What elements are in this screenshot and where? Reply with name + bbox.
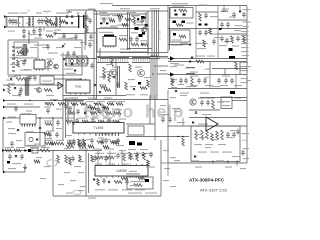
label z2 (8, 168, 16, 169)
label pfc t (99, 12, 107, 13)
wire x168 y90-126 (167, 90, 169, 126)
label C38 (198, 98, 206, 99)
wire y163 join (161, 162, 168, 164)
box PC817 opto (25, 133, 45, 147)
capacitor C3 (40, 18, 44, 24)
label cap row b (205, 85, 213, 86)
diode bridge BD1 b (66, 22, 69, 24)
capacitor C6 (141, 16, 145, 22)
diode bridge BD1 d (71, 22, 74, 24)
wire tick d (236, 163, 238, 166)
label emi h (30, 34, 37, 35)
capacitor C32 (8, 154, 12, 160)
component blob (183, 14, 186, 16)
capacitor C50 (200, 100, 204, 106)
resistor R25 (231, 36, 234, 43)
label d30 (202, 114, 211, 115)
svg-text:LM339: LM339 (116, 169, 126, 173)
wire center vertical 2 (154, 95, 156, 140)
resistor R39 (129, 152, 132, 160)
node y136 b (182, 136, 184, 138)
component blob (219, 28, 222, 30)
label bl a (36, 157, 42, 158)
diode D15 (191, 56, 193, 59)
diode D21 (66, 84, 68, 87)
capacitor C67 (46, 65, 50, 71)
label D17 (174, 65, 184, 66)
label pfc x (110, 26, 117, 27)
wire y174 (126, 173, 140, 175)
wire to bridge bottom (64, 26, 78, 28)
wire x88 (88, 153, 90, 193)
wire y150 under TL494 (63, 150, 102, 152)
diode D8 (113, 76, 116, 78)
diode D16 (189, 60, 191, 63)
resistor R7c (117, 15, 123, 18)
label 3v3 n (213, 139, 219, 140)
label hb e (144, 77, 151, 78)
label row1 (100, 18, 112, 19)
resistor R47 (221, 130, 224, 140)
opto IC2 (80, 58, 88, 64)
component blob (145, 24, 148, 27)
resistor R66 (138, 177, 145, 180)
resistor R71 (66, 145, 74, 148)
resistor R19 (106, 156, 114, 159)
wire y79 (54, 78, 82, 80)
diode D19 (24, 59, 26, 62)
node y100 a (29, 100, 30, 101)
label t6 (115, 109, 122, 110)
diode D28 (94, 84, 97, 86)
label R11 (137, 24, 145, 25)
label h10 (241, 78, 249, 79)
capacitor C70 (22, 28, 26, 34)
label +12 row a (190, 72, 198, 73)
label PS223 row2 (130, 185, 143, 186)
resistor R54 (14, 149, 21, 152)
label h7 (241, 62, 249, 63)
label rail b (216, 160, 224, 161)
label IC3 (66, 57, 74, 58)
wire +5VSB out (232, 100, 247, 102)
resistor R6 (86, 25, 89, 33)
label L3 (56, 13, 64, 14)
ground (53, 32, 57, 36)
svg-text:+3.3V: +3.3V (241, 140, 247, 142)
capacitor C94 (72, 139, 76, 145)
label rail d (225, 167, 232, 168)
label R69 (8, 133, 16, 134)
component blob (230, 91, 235, 94)
label sb in a (10, 57, 18, 58)
resistor R15 (65, 155, 68, 163)
label pwm h (78, 118, 87, 119)
resistor R7 (125, 18, 132, 21)
wire bottom of PFC box (97, 56, 168, 58)
resistor R10 (133, 16, 136, 24)
label m1 (106, 64, 113, 65)
terminal GND (3, 171, 6, 174)
label sb box2 (46, 59, 54, 60)
label t10 (119, 119, 126, 120)
label mid b (210, 34, 218, 35)
label wm a (160, 105, 166, 106)
capacitor C9 (85, 15, 89, 21)
label t4 (84, 111, 91, 112)
label 3v3 k (230, 130, 236, 131)
label in sbbox b (56, 47, 63, 48)
wire x210 to y88 (209, 75, 211, 89)
node sb (28, 33, 29, 34)
diode D14 (189, 43, 191, 46)
transistor Q2b (142, 28, 147, 33)
wire y74 to right (157, 73, 168, 75)
wire top rail 2 (94, 13, 147, 15)
wire below PFC box (100, 58, 160, 60)
label bb c (70, 180, 76, 181)
label 3v3 d (198, 152, 207, 153)
label top row PFC (100, 3, 113, 4)
wire x236 to y88 (235, 75, 237, 89)
resistor R78 (88, 145, 94, 148)
resistor R35 (147, 80, 150, 87)
resistor R24 (108, 74, 111, 82)
wire x100 drop (99, 48, 101, 58)
label under T1 (150, 53, 159, 54)
label in box (120, 49, 130, 50)
diode D23a (17, 129, 20, 131)
capacitor C8 (135, 36, 139, 42)
capacitor C78 (46, 44, 50, 50)
capacitor C7 (129, 36, 133, 42)
label sb in b (10, 64, 18, 65)
label u494 c (66, 135, 72, 136)
box SE110N (40, 76, 54, 84)
wire AC bottom (6, 26, 64, 28)
capacitor C20 (203, 78, 207, 84)
wire vertical bus x86 (85, 10, 87, 45)
label under LM339 b (108, 189, 118, 190)
resistor R36 (83, 139, 86, 146)
wire emi left vert 2 (5, 17, 7, 28)
label ka4 (44, 121, 52, 122)
resistor R72 (78, 145, 86, 148)
resistor RP2 (90, 107, 96, 110)
diode D19b rail start (170, 72, 175, 77)
label FR302 (196, 43, 208, 44)
capacitor C28 (19, 87, 23, 93)
label rt f (232, 46, 239, 47)
box 7805 reg (221, 97, 232, 109)
resistor R80 (147, 160, 150, 166)
wire x74 drop (73, 100, 75, 125)
label lm g (114, 156, 120, 157)
capacitor C90 (104, 156, 108, 162)
label dense a (68, 121, 75, 122)
capacitor C69 (102, 17, 106, 23)
wire y118 a (5, 117, 20, 119)
capacitor C57 (38, 27, 42, 33)
label in sbbox c (74, 47, 81, 48)
resistor R31 (66, 120, 73, 123)
resistor R40 (143, 152, 146, 160)
resistor R85 (69, 158, 72, 165)
resistor R75 (182, 138, 185, 146)
resistor R21 (136, 153, 139, 161)
resistor R8 (119, 38, 127, 41)
input terminal AC line (4, 15, 7, 18)
label u494 g (98, 138, 104, 139)
diode D4 (142, 154, 145, 156)
label bc a (128, 149, 136, 150)
label row c (30, 147, 39, 148)
diode D5 (137, 18, 140, 20)
wire rail y88 (168, 88, 247, 90)
capacitor C52 (226, 132, 230, 138)
node p1 (67, 103, 68, 104)
label lm e (74, 166, 81, 167)
label C13 (140, 40, 148, 41)
capacitor C75 (32, 28, 36, 34)
capacitor C53 (232, 132, 236, 138)
label cap row a (190, 85, 198, 86)
component blob (138, 82, 141, 85)
label right edge b (246, 80, 251, 81)
resistor RV3 (50, 23, 56, 26)
component blob (129, 141, 135, 145)
wire x168 vertical (167, 126, 169, 163)
resistor R29 (105, 112, 112, 115)
resistor R44 (212, 100, 215, 109)
wire x218 vertical (217, 6, 219, 58)
capacitor C85 (10, 141, 14, 147)
capacitor C86 (68, 140, 72, 146)
capacitor C80 (212, 39, 216, 45)
node d3 (100, 103, 101, 104)
capacitor C29 (74, 85, 78, 91)
component blob (141, 16, 144, 19)
component blob (137, 143, 142, 146)
transformer T4 standby small (24, 44, 26, 56)
label k3 (44, 102, 52, 103)
op-amp IC10 TL431 (58, 82, 63, 89)
label emi j (16, 23, 21, 24)
label t11 (112, 140, 120, 141)
label emi k (26, 23, 31, 24)
inductor L10 (186, 73, 195, 74)
resistor R24 (94, 103, 101, 106)
capacitor C5 bulk (78, 15, 79, 28)
label emi c (36, 13, 42, 14)
wire y95 (63, 95, 126, 97)
wire y66 to right (157, 65, 168, 67)
label right a (241, 133, 249, 134)
label R66 (8, 117, 16, 118)
label 3v3 a (194, 144, 202, 145)
diode D30 (195, 112, 198, 114)
capacitor C30 (48, 132, 52, 138)
capacitor C31 (55, 132, 59, 138)
wire x168 below (167, 163, 169, 176)
capacitor C46 (90, 138, 94, 144)
node bundle b (154, 65, 155, 66)
IC TL494 (73, 121, 124, 135)
label hb f (130, 86, 136, 87)
wire vertical bus x96 (96, 11, 98, 99)
label pwm i (90, 118, 99, 119)
capacitor C60 (116, 82, 120, 88)
label aux4 (36, 84, 43, 85)
label rs a (163, 150, 169, 151)
diode D26 (108, 181, 110, 184)
resistor R57 (44, 133, 50, 136)
capacitor C87 (236, 129, 240, 135)
wire x86 (85, 150, 87, 196)
box PS223 supervisor (127, 177, 153, 189)
component blob (143, 17, 146, 19)
capacitor C95 (100, 139, 104, 145)
resistor R25 (107, 103, 114, 106)
resistor R12 (131, 43, 139, 46)
component blob (199, 24, 202, 26)
diode D19c (62, 45, 64, 48)
box driver stage (128, 126, 144, 135)
label D17 a (170, 63, 179, 64)
wire center vertical (149, 95, 151, 124)
resistor R81 (34, 160, 40, 163)
capacitor C27 (33, 75, 37, 81)
label sb top a (34, 38, 42, 39)
ground EMI (38, 33, 42, 37)
resistor R60 (17, 51, 24, 54)
capacitor C13 (204, 30, 208, 36)
wire y107 (5, 106, 40, 108)
resistor R28 (103, 67, 106, 76)
resistor R26 (116, 103, 123, 106)
wire to standby box (28, 30, 30, 44)
label rs b (170, 157, 176, 158)
capacitor C61 (90, 63, 94, 69)
label u494 d (86, 139, 92, 140)
label o5 e (170, 97, 176, 98)
diode D29 (99, 91, 102, 93)
capacitor C51 (206, 100, 210, 106)
terminal PS-ON (2, 149, 5, 152)
wire x196 vertical (195, 6, 197, 58)
resistor R3 (191, 77, 194, 86)
resistor R77 (79, 155, 82, 162)
wire x183 v (182, 118, 184, 127)
resistor R20 (123, 153, 126, 161)
label tr b (229, 17, 236, 18)
label standby top (34, 45, 48, 46)
label sb box1 (16, 47, 25, 48)
terminal aux (3, 89, 6, 92)
capacitor C36 (116, 153, 120, 159)
capacitor C91 (8, 18, 12, 24)
label o5 c (180, 95, 187, 96)
resistor R55 (40, 149, 50, 152)
label pwm f (117, 101, 125, 102)
component blob (145, 179, 149, 182)
wire x168 vertical top (167, 6, 169, 53)
label t7 (70, 98, 78, 99)
label rs c (164, 168, 170, 169)
resistor R16 (179, 9, 187, 12)
label c5 a (172, 108, 180, 109)
capacitor C77 (62, 33, 66, 39)
node k7 (45, 103, 46, 104)
label pc b (16, 140, 22, 141)
resistor R16 (97, 179, 100, 186)
resistor R23 (111, 58, 114, 66)
label 3v3 g (232, 156, 240, 157)
wire emi stub (43, 27, 45, 31)
label lm j (64, 172, 70, 173)
transistor Q10 pass (206, 117, 218, 131)
diode D18 rail start (170, 56, 175, 61)
label top row 2 (120, 8, 130, 9)
IC10 area (34, 58, 45, 71)
label bb f (170, 186, 176, 187)
capacitor C49 (168, 117, 172, 123)
resistor R27 (209, 28, 212, 34)
label sb e (24, 69, 30, 70)
capacitor C43 (75, 118, 79, 124)
TL494 bottom pin row (96, 133, 118, 136)
label rs e (174, 160, 180, 161)
wire rail y58 (168, 58, 247, 60)
component blob (100, 23, 103, 25)
resistor R29 (104, 89, 111, 92)
label lm k (78, 172, 84, 173)
diode D6 (141, 43, 143, 46)
wire bottom edge y196 (53, 195, 161, 197)
label h9 (241, 70, 249, 71)
resistor R4 (21, 47, 24, 55)
capacitor C2 (37, 18, 41, 24)
node bundle a (152, 73, 153, 74)
resistor R34 (113, 120, 120, 123)
wire rail y61 (168, 61, 247, 63)
label 7805 b (222, 105, 230, 106)
label t9 (104, 98, 112, 99)
label opto row (27, 145, 36, 146)
label o5 b (171, 87, 177, 88)
label dense g (110, 114, 117, 115)
resistor R13 (78, 142, 86, 145)
label emi f (62, 13, 69, 14)
resistor R38 (110, 141, 117, 144)
capacitor C14 (232, 12, 236, 18)
capacitor C40 (101, 104, 105, 110)
label R58 (46, 131, 54, 132)
label 3v3 h (199, 137, 206, 138)
resistor R49 (206, 130, 209, 139)
resistor R35 (78, 139, 81, 146)
capacitor C38 (64, 104, 68, 110)
resistor R7d (122, 24, 128, 27)
label sb1 (196, 56, 205, 57)
resistor R9 (58, 103, 66, 106)
svg-text:TL494: TL494 (94, 126, 104, 130)
label rt e (224, 41, 231, 42)
capacitor CX1 box (19, 17, 24, 27)
label 5VSB b (198, 124, 208, 125)
label +5 row b (222, 76, 230, 77)
inductor L9 (186, 67, 195, 68)
